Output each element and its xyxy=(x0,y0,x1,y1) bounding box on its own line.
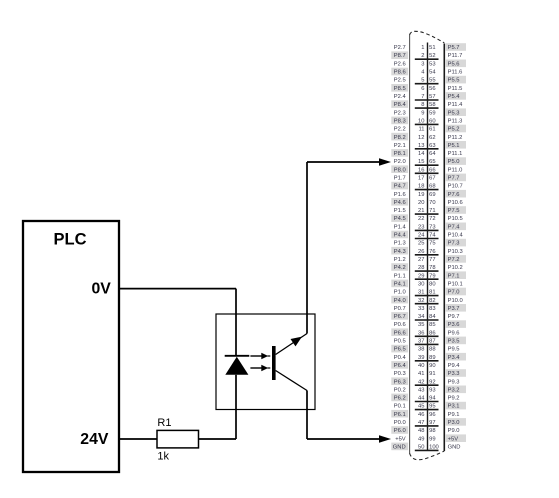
arrowhead at +5V (pin 49) xyxy=(379,435,391,443)
connector separator line below pin 5 xyxy=(415,83,439,85)
svg-text:P5.0: P5.0 xyxy=(448,159,460,165)
connector row: pin 12 P8.2 / pin 62 P11.2 xyxy=(391,133,462,141)
svg-text:17: 17 xyxy=(418,176,424,182)
svg-text:P5.7: P5.7 xyxy=(448,45,460,51)
wire LED anode vertical xyxy=(235,375,237,439)
connector row: pin 5 P2.5 / pin 55 P5.5 xyxy=(394,76,466,84)
svg-text:P10.5: P10.5 xyxy=(448,216,463,222)
svg-text:8: 8 xyxy=(421,102,424,108)
wire 24V to R1 xyxy=(119,438,157,440)
svg-text:P6.7: P6.7 xyxy=(394,314,406,320)
svg-text:45: 45 xyxy=(418,404,424,410)
svg-text:85: 85 xyxy=(429,322,435,328)
svg-text:P4.6: P4.6 xyxy=(394,200,406,206)
svg-text:93: 93 xyxy=(429,387,435,393)
svg-text:P3.4: P3.4 xyxy=(448,355,461,361)
svg-text:46: 46 xyxy=(418,412,424,418)
connector separator line below pin 23 xyxy=(415,229,439,231)
wire to +5V: vertical xyxy=(306,391,308,440)
LED D1 triangle (pointing up) xyxy=(225,357,248,375)
svg-text:P0.0: P0.0 xyxy=(394,420,406,426)
svg-text:P8.4: P8.4 xyxy=(394,102,407,108)
svg-text:P3.6: P3.6 xyxy=(448,322,460,328)
svg-text:P10.4: P10.4 xyxy=(448,233,464,239)
svg-text:P6.2: P6.2 xyxy=(394,396,406,402)
svg-text:86: 86 xyxy=(429,330,435,336)
svg-text:P10.2: P10.2 xyxy=(448,265,463,271)
connector row: pin 27 P1.2 / pin 77 P7.2 xyxy=(394,255,466,263)
svg-text:P6.5: P6.5 xyxy=(394,347,406,353)
svg-text:77: 77 xyxy=(429,257,435,263)
connector row: pin 44 P6.2 / pin 94 P9.2 xyxy=(391,394,459,402)
connector row: pin 34 P6.7 / pin 84 P9.7 xyxy=(391,312,459,320)
svg-text:P10.3: P10.3 xyxy=(448,249,463,255)
svg-text:P3.1: P3.1 xyxy=(448,404,460,410)
connector separator line below pin 8 xyxy=(415,107,439,109)
svg-text:P10.0: P10.0 xyxy=(448,298,463,304)
svg-text:P4.3: P4.3 xyxy=(394,249,406,255)
svg-text:P7.2: P7.2 xyxy=(448,257,460,263)
svg-text:P5.2: P5.2 xyxy=(448,127,460,133)
svg-text:P10.1: P10.1 xyxy=(448,282,463,288)
svg-text:26: 26 xyxy=(418,249,424,255)
svg-text:71: 71 xyxy=(429,208,435,214)
svg-text:P11.0: P11.0 xyxy=(448,167,463,173)
svg-text:92: 92 xyxy=(429,379,435,385)
wire to P2.0: vertical xyxy=(306,162,308,334)
connector row: pin 45 P0.1 / pin 95 P3.1 xyxy=(394,402,466,410)
svg-text:P1.4: P1.4 xyxy=(394,224,407,230)
svg-text:P6.3: P6.3 xyxy=(394,379,406,385)
connector row: pin 50 GND / pin 100 GND xyxy=(391,443,460,451)
svg-text:P5.1: P5.1 xyxy=(448,143,460,149)
connector row: pin 43 P0.2 / pin 93 P3.2 xyxy=(394,386,466,394)
svg-text:27: 27 xyxy=(418,257,424,263)
svg-text:95: 95 xyxy=(429,404,435,410)
svg-text:57: 57 xyxy=(429,94,435,100)
svg-text:29: 29 xyxy=(418,273,424,279)
connector separator line below pin 37 xyxy=(415,343,439,345)
svg-text:25: 25 xyxy=(418,241,424,247)
svg-text:P0.4: P0.4 xyxy=(394,355,407,361)
svg-text:P6.4: P6.4 xyxy=(394,363,407,369)
svg-text:P11.4: P11.4 xyxy=(448,102,463,108)
connector separator line below pin 42 xyxy=(415,384,439,386)
connector separator line below pin 39 xyxy=(415,360,439,362)
connector row: pin 31 P1.0 / pin 81 P7.0 xyxy=(394,288,466,296)
svg-text:P5.5: P5.5 xyxy=(448,78,460,84)
svg-text:P9.3: P9.3 xyxy=(448,379,460,385)
svg-text:P9.1: P9.1 xyxy=(448,412,460,418)
svg-text:76: 76 xyxy=(429,249,435,255)
svg-text:19: 19 xyxy=(418,192,424,198)
connector row: pin 42 P6.3 / pin 92 P9.3 xyxy=(391,377,459,385)
svg-text:35: 35 xyxy=(418,322,424,328)
svg-text:P11.3: P11.3 xyxy=(448,119,463,125)
svg-text:59: 59 xyxy=(429,110,435,116)
svg-text:P11.7: P11.7 xyxy=(448,53,463,59)
connector row: pin 15 P2.0 / pin 65 P5.0 xyxy=(394,157,466,165)
svg-text:P7.7: P7.7 xyxy=(448,176,460,182)
svg-text:P6.6: P6.6 xyxy=(394,330,406,336)
svg-text:51: 51 xyxy=(429,45,435,51)
svg-text:P2.5: P2.5 xyxy=(394,78,406,84)
svg-text:64: 64 xyxy=(429,151,436,157)
svg-text:P4.7: P4.7 xyxy=(394,184,406,190)
connector row: pin 48 P6.0 / pin 98 P9.0 xyxy=(391,426,459,434)
svg-text:53: 53 xyxy=(429,61,435,67)
svg-text:15: 15 xyxy=(418,159,424,165)
connector row: pin 41 P0.3 / pin 91 P3.3 xyxy=(394,369,466,377)
connector row: pin 18 P4.7 / pin 68 P10.7 xyxy=(391,182,462,190)
connector row: pin 23 P1.4 / pin 73 P7.4 xyxy=(394,223,466,231)
svg-text:88: 88 xyxy=(429,347,435,353)
svg-text:1: 1 xyxy=(421,45,424,51)
svg-text:P0.3: P0.3 xyxy=(394,371,406,377)
connector row: pin 4 P8.6 / pin 54 P11.6 xyxy=(391,68,462,76)
svg-text:70: 70 xyxy=(429,200,435,206)
svg-text:62: 62 xyxy=(429,135,435,141)
svg-text:41: 41 xyxy=(418,371,424,377)
svg-text:P9.2: P9.2 xyxy=(448,396,460,402)
connector row: pin 7 P2.4 / pin 57 P5.4 xyxy=(394,92,466,100)
svg-text:96: 96 xyxy=(429,412,435,418)
connector row: pin 6 P8.5 / pin 56 P11.5 xyxy=(391,84,462,92)
svg-text:55: 55 xyxy=(429,78,435,84)
svg-text:P2.3: P2.3 xyxy=(394,110,406,116)
svg-text:P1.7: P1.7 xyxy=(394,176,406,182)
connector bottom squiggle (dashed) xyxy=(410,451,445,460)
connector column divider xyxy=(427,43,429,451)
svg-text:31: 31 xyxy=(418,290,424,296)
svg-text:18: 18 xyxy=(418,184,424,190)
svg-text:5: 5 xyxy=(421,78,424,84)
svg-text:P8.6: P8.6 xyxy=(394,70,406,76)
LED D1 cathode bar xyxy=(225,355,250,357)
connector row: pin 46 P6.1 / pin 96 P9.1 xyxy=(391,410,459,418)
svg-text:P0.2: P0.2 xyxy=(394,387,406,393)
svg-text:P8.3: P8.3 xyxy=(394,119,406,125)
svg-text:68: 68 xyxy=(429,184,435,190)
svg-text:P6.0: P6.0 xyxy=(394,428,406,434)
svg-text:21: 21 xyxy=(418,208,424,214)
svg-text:52: 52 xyxy=(429,53,435,59)
svg-text:98: 98 xyxy=(429,428,435,434)
svg-text:97: 97 xyxy=(429,420,435,426)
svg-text:63: 63 xyxy=(429,143,435,149)
svg-text:44: 44 xyxy=(418,396,425,402)
connector row: pin 39 P0.4 / pin 89 P3.4 xyxy=(394,353,466,361)
connector row: pin 2 P8.7 / pin 52 P11.7 xyxy=(391,51,462,59)
connector row: pin 22 P4.5 / pin 72 P10.5 xyxy=(391,214,462,222)
svg-text:P10.6: P10.6 xyxy=(448,200,463,206)
connector row: pin 26 P4.3 / pin 76 P10.3 xyxy=(391,247,462,255)
svg-text:79: 79 xyxy=(429,273,435,279)
connector row: pin 1 P2.7 / pin 51 P5.7 xyxy=(394,43,466,51)
svg-text:P7.0: P7.0 xyxy=(448,290,460,296)
svg-text:P5.3: P5.3 xyxy=(448,110,460,116)
svg-text:P3.2: P3.2 xyxy=(448,387,460,393)
svg-text:23: 23 xyxy=(418,224,424,230)
svg-text:1k: 1k xyxy=(157,451,169,463)
svg-text:P2.7: P2.7 xyxy=(394,45,406,51)
svg-text:P3.0: P3.0 xyxy=(448,420,460,426)
svg-text:78: 78 xyxy=(429,265,435,271)
svg-text:P5.4: P5.4 xyxy=(448,94,461,100)
svg-text:P7.6: P7.6 xyxy=(448,192,460,198)
svg-text:61: 61 xyxy=(429,127,435,133)
resistor R1 xyxy=(157,430,199,448)
svg-text:P2.6: P2.6 xyxy=(394,61,406,67)
connector row: pin 20 P4.6 / pin 70 P10.6 xyxy=(391,198,462,206)
svg-text:54: 54 xyxy=(429,70,436,76)
svg-text:P5.6: P5.6 xyxy=(448,61,460,67)
svg-text:40: 40 xyxy=(418,363,424,369)
connector top squiggle (dashed) xyxy=(410,31,445,43)
svg-text:P11.1: P11.1 xyxy=(448,151,463,157)
connector row: pin 9 P2.3 / pin 59 P5.3 xyxy=(394,108,466,116)
svg-text:P8.0: P8.0 xyxy=(394,167,406,173)
svg-text:24: 24 xyxy=(418,233,425,239)
svg-text:24V: 24V xyxy=(80,431,109,448)
svg-text:100: 100 xyxy=(429,445,439,451)
connector row: pin 21 P1.5 / pin 71 P7.5 xyxy=(394,206,466,214)
wire R1 to LED xyxy=(199,438,237,440)
svg-text:P6.1: P6.1 xyxy=(394,412,406,418)
connector row: pin 38 P6.5 / pin 88 P9.5 xyxy=(391,345,459,353)
svg-text:P8.7: P8.7 xyxy=(394,53,406,59)
svg-text:P7.1: P7.1 xyxy=(448,273,460,279)
connector separator line below pin 31 xyxy=(415,295,439,297)
svg-text:P1.6: P1.6 xyxy=(394,192,406,198)
svg-text:P4.1: P4.1 xyxy=(394,282,406,288)
connector row: pin 33 P0.7 / pin 83 P3.7 xyxy=(394,304,466,312)
PLC box xyxy=(23,221,119,472)
svg-text:P9.4: P9.4 xyxy=(448,363,461,369)
svg-text:75: 75 xyxy=(429,241,435,247)
svg-text:0V: 0V xyxy=(91,281,111,298)
svg-text:20: 20 xyxy=(418,200,424,206)
svg-text:38: 38 xyxy=(418,347,424,353)
connector right edge xyxy=(443,44,445,452)
connector separator line below pin 44 xyxy=(415,401,439,403)
connector row: pin 47 P0.0 / pin 97 P3.0 xyxy=(394,418,466,426)
svg-text:91: 91 xyxy=(429,371,435,377)
svg-text:P3.3: P3.3 xyxy=(448,371,460,377)
svg-text:22: 22 xyxy=(418,216,424,222)
svg-text:49: 49 xyxy=(418,436,424,442)
svg-text:39: 39 xyxy=(418,355,424,361)
svg-text:P4.4: P4.4 xyxy=(394,233,407,239)
svg-text:P2.1: P2.1 xyxy=(394,143,406,149)
connector row: pin 16 P8.0 / pin 66 P11.0 xyxy=(391,165,462,173)
connector row: pin 35 P0.6 / pin 85 P3.6 xyxy=(394,320,466,328)
svg-text:66: 66 xyxy=(429,167,435,173)
phototransistor Q1 base bar xyxy=(272,346,276,380)
svg-text:33: 33 xyxy=(418,306,424,312)
svg-text:48: 48 xyxy=(418,428,424,434)
svg-text:30: 30 xyxy=(418,282,424,288)
connector separator line below pin 21 xyxy=(415,213,439,215)
svg-text:P1.5: P1.5 xyxy=(394,208,406,214)
svg-text:43: 43 xyxy=(418,387,424,393)
svg-text:9: 9 xyxy=(421,110,424,116)
svg-text:65: 65 xyxy=(429,159,435,165)
svg-text:GND: GND xyxy=(393,445,406,451)
svg-text:P3.7: P3.7 xyxy=(448,306,460,312)
svg-text:P11.6: P11.6 xyxy=(448,70,463,76)
svg-text:50: 50 xyxy=(418,445,424,451)
svg-text:7: 7 xyxy=(421,94,424,100)
svg-text:P3.5: P3.5 xyxy=(448,339,460,345)
connector separator line below pin 13 xyxy=(415,148,439,150)
svg-text:P2.4: P2.4 xyxy=(394,94,407,100)
svg-text:34: 34 xyxy=(418,314,425,320)
connector separator line below pin 34 xyxy=(415,319,439,321)
Q1 emitter line with arrow xyxy=(276,334,307,355)
svg-text:28: 28 xyxy=(418,265,424,271)
light arrow 1 xyxy=(250,353,270,359)
connector separator line below pin 7 xyxy=(415,99,439,101)
svg-text:67: 67 xyxy=(429,176,435,182)
connector row: pin 14 P8.1 / pin 64 P11.1 xyxy=(391,149,462,157)
svg-text:PLC: PLC xyxy=(54,231,87,249)
svg-text:60: 60 xyxy=(429,119,435,125)
svg-text:80: 80 xyxy=(429,282,435,288)
svg-text:36: 36 xyxy=(418,330,424,336)
connector row: pin 10 P8.3 / pin 60 P11.3 xyxy=(391,117,462,125)
connector row: pin 36 P6.6 / pin 86 P9.6 xyxy=(391,328,459,336)
connector row: pin 37 P0.5 / pin 87 P3.5 xyxy=(394,337,466,345)
connector row: pin 13 P2.1 / pin 63 P5.1 xyxy=(394,141,466,149)
connector row: pin 32 P4.0 / pin 82 P10.0 xyxy=(391,296,462,304)
connector separator line below pin 50 xyxy=(415,449,439,451)
svg-text:6: 6 xyxy=(421,86,424,92)
svg-text:P9.0: P9.0 xyxy=(448,428,460,434)
connector row: pin 11 P2.2 / pin 61 P5.2 xyxy=(394,125,466,133)
svg-text:81: 81 xyxy=(429,290,435,296)
svg-text:37: 37 xyxy=(418,339,424,345)
connector separator line below pin 45 xyxy=(415,409,439,411)
connector separator line below pin 16 xyxy=(415,172,439,174)
connector separator line below pin 15 xyxy=(415,164,439,166)
svg-text:R1: R1 xyxy=(157,417,171,429)
wire to +5V horizontal xyxy=(307,438,380,440)
connector separator line below pin 26 xyxy=(415,254,439,256)
svg-text:89: 89 xyxy=(429,355,435,361)
connector row: pin 8 P8.4 / pin 58 P11.4 xyxy=(391,100,463,108)
connector row: pin 29 P1.1 / pin 79 P7.1 xyxy=(394,271,466,279)
svg-text:P11.5: P11.5 xyxy=(448,86,463,92)
connector row: pin 40 P6.4 / pin 90 P9.4 xyxy=(391,361,460,369)
svg-text:P7.3: P7.3 xyxy=(448,241,460,247)
svg-text:P9.6: P9.6 xyxy=(448,330,460,336)
connector row: pin 3 P2.6 / pin 53 P5.6 xyxy=(394,60,466,68)
svg-text:P0.7: P0.7 xyxy=(394,306,406,312)
connector separator line below pin 47 xyxy=(415,425,439,427)
connector separator line below pin 18 xyxy=(415,189,439,191)
svg-text:P8.5: P8.5 xyxy=(394,86,406,92)
svg-text:58: 58 xyxy=(429,102,435,108)
optocoupler box U1 xyxy=(216,314,315,410)
svg-text:11: 11 xyxy=(418,127,424,133)
connector row: pin 19 P1.6 / pin 69 P7.6 xyxy=(394,190,466,198)
svg-text:90: 90 xyxy=(429,363,435,369)
svg-text:42: 42 xyxy=(418,379,424,385)
wire to P2.0 horizontal xyxy=(307,161,380,163)
svg-text:P4.5: P4.5 xyxy=(394,216,406,222)
svg-text:P11.2: P11.2 xyxy=(448,135,463,141)
svg-text:P0.1: P0.1 xyxy=(394,404,406,410)
connector row: pin 25 P1.3 / pin 75 P7.3 xyxy=(394,239,466,247)
svg-text:P10.7: P10.7 xyxy=(448,184,463,190)
svg-text:P1.1: P1.1 xyxy=(394,273,406,279)
connector separator line below pin 29 xyxy=(415,278,439,280)
connector row: pin 17 P1.7 / pin 67 P7.7 xyxy=(394,174,466,182)
svg-text:47: 47 xyxy=(418,420,424,426)
connector row: pin 24 P4.4 / pin 74 P10.4 xyxy=(391,231,463,239)
svg-text:16: 16 xyxy=(418,167,424,173)
svg-text:P8.1: P8.1 xyxy=(394,151,406,157)
svg-text:3: 3 xyxy=(421,61,424,67)
svg-text:P9.5: P9.5 xyxy=(448,347,460,353)
svg-text:73: 73 xyxy=(429,224,435,230)
svg-text:P0.6: P0.6 xyxy=(394,322,406,328)
svg-text:P4.2: P4.2 xyxy=(394,265,406,271)
wire LED cathode vertical xyxy=(235,289,237,355)
svg-text:P4.0: P4.0 xyxy=(394,298,406,304)
svg-text:74: 74 xyxy=(429,233,436,239)
svg-text:P9.7: P9.7 xyxy=(448,314,460,320)
svg-text:2: 2 xyxy=(421,53,424,59)
light arrow 2 xyxy=(250,365,270,371)
svg-text:+5V: +5V xyxy=(448,436,459,442)
svg-text:P8.2: P8.2 xyxy=(394,135,406,141)
svg-text:13: 13 xyxy=(418,143,424,149)
connector separator line below pin 10 xyxy=(415,123,439,125)
svg-text:82: 82 xyxy=(429,298,435,304)
svg-text:P0.5: P0.5 xyxy=(394,339,406,345)
connector row: pin 49 +5V / pin 99 +5V xyxy=(395,434,466,442)
connector separator line below pin 28 xyxy=(415,270,439,272)
arrowhead at P2.0 (pin 15) xyxy=(379,158,391,166)
svg-text:72: 72 xyxy=(429,216,435,222)
svg-text:P1.3: P1.3 xyxy=(394,241,406,247)
svg-text:99: 99 xyxy=(429,436,435,442)
svg-text:84: 84 xyxy=(429,314,436,320)
svg-text:P1.0: P1.0 xyxy=(394,290,406,296)
Q1 collector line xyxy=(276,371,307,391)
svg-text:14: 14 xyxy=(418,151,425,157)
wire 0V horizontal xyxy=(119,288,236,290)
svg-text:GND: GND xyxy=(448,445,461,451)
connector separator line below pin 32 xyxy=(415,303,439,305)
svg-text:P2.0: P2.0 xyxy=(394,159,406,165)
svg-text:94: 94 xyxy=(429,396,436,402)
svg-text:P7.4: P7.4 xyxy=(448,224,461,230)
svg-text:32: 32 xyxy=(418,298,424,304)
connector row: pin 30 P4.1 / pin 80 P10.1 xyxy=(391,280,462,288)
svg-text:69: 69 xyxy=(429,192,435,198)
connector row: pin 28 P4.2 / pin 78 P10.2 xyxy=(391,263,462,271)
svg-text:87: 87 xyxy=(429,339,435,345)
connector J1 outline left edge xyxy=(409,35,411,454)
svg-text:56: 56 xyxy=(429,86,435,92)
connector separator line below pin 36 xyxy=(415,335,439,337)
svg-text:P7.5: P7.5 xyxy=(448,208,460,214)
svg-text:+5V: +5V xyxy=(395,436,406,442)
svg-text:P1.2: P1.2 xyxy=(394,257,406,263)
